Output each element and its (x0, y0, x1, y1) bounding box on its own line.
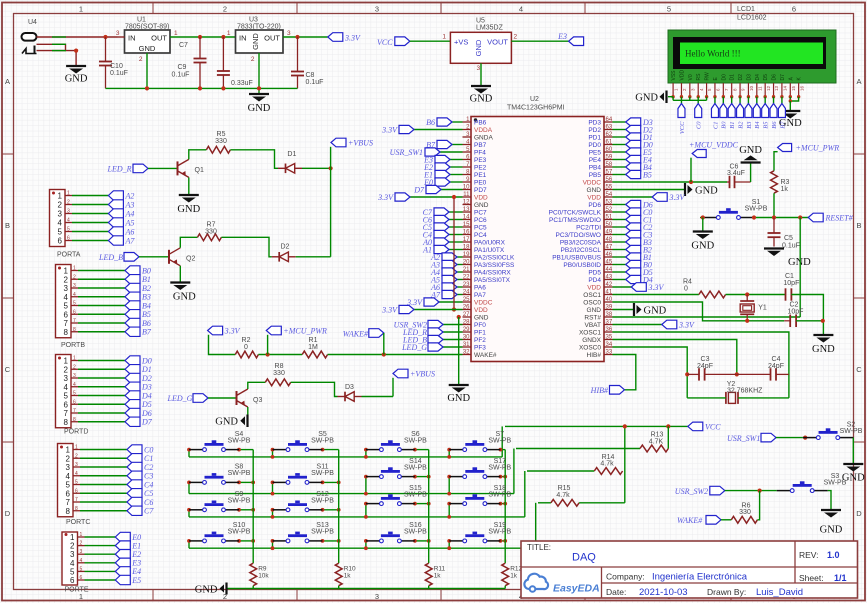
node +VBUS (331, 138, 373, 148)
pin 10 of LCD1 (D3) (746, 74, 754, 97)
wire keypad column vertical (252, 450, 254, 564)
svg-text:PC7: PC7 (474, 210, 487, 217)
capacitor C8 (291, 37, 323, 88)
junction (221, 35, 225, 39)
svg-text:PA1/U0TX: PA1/U0TX (474, 247, 505, 254)
svg-text:VDDC: VDDC (583, 180, 602, 187)
svg-text:22: 22 (463, 274, 470, 280)
wire LCD pin 2 (680, 97, 682, 104)
svg-text:U4: U4 (28, 19, 37, 26)
node B0 (720, 104, 728, 129)
svg-text:VSS: VSS (671, 70, 677, 81)
svg-text:GND: GND (635, 92, 658, 103)
svg-text:R11: R11 (434, 566, 446, 573)
connector U4 (DC jack) (22, 19, 38, 54)
svg-text:23: 23 (463, 282, 470, 288)
ground (470, 86, 493, 105)
node D7 (125, 417, 153, 427)
wire Q1 emitter (188, 177, 190, 195)
wire (338, 586, 340, 589)
wire switch right to column (500, 449, 505, 451)
svg-text:2021-10-03: 2021-10-03 (639, 587, 688, 598)
svg-text:VCC: VCC (377, 38, 393, 47)
svg-text:1: 1 (80, 532, 83, 538)
resistor R15 (551, 485, 579, 506)
switch S16 (366, 522, 427, 543)
svg-text:2: 2 (73, 274, 76, 280)
svg-text:D3: D3 (746, 74, 752, 81)
node 3.3V (328, 33, 361, 43)
junction (623, 424, 627, 428)
wire WAKE# stem (383, 333, 385, 355)
svg-text:27: 27 (463, 312, 470, 318)
wire switch left drop (272, 510, 274, 517)
junction (689, 180, 693, 184)
wire U2 XOSC1 (613, 332, 789, 398)
wire D2 to +VBUS (296, 256, 331, 258)
svg-text:C1: C1 (712, 122, 719, 130)
wire U1.GND to rail (146, 53, 148, 88)
svg-text:D5: D5 (763, 74, 769, 81)
wire keypad row 2 bus (189, 493, 514, 495)
node LED_G (401, 343, 443, 352)
svg-text:PE4: PE4 (589, 157, 602, 164)
svg-text:D: D (856, 509, 862, 518)
svg-text:GND: GND (644, 305, 667, 316)
node D0 (626, 140, 653, 149)
wire PORTA pin 5 (72, 231, 108, 233)
wire to GND (789, 101, 791, 111)
capacitor C10 (99, 37, 128, 88)
node C6 (127, 497, 153, 507)
svg-text:GND: GND (65, 74, 88, 85)
node A2 (108, 191, 134, 201)
svg-text:PD5: PD5 (588, 270, 601, 277)
wire to GND symbol (668, 96, 673, 98)
svg-text:B5: B5 (142, 310, 151, 319)
wire LCD pin 9 (739, 97, 741, 104)
svg-text:PE3: PE3 (474, 157, 487, 164)
wire U2 pin 29 (443, 331, 463, 333)
node C1 (127, 454, 153, 464)
svg-text:+MCU_VDDC: +MCU_VDDC (689, 141, 739, 150)
svg-text:PF4: PF4 (474, 150, 486, 157)
wire U2 pin 7 (450, 166, 463, 168)
svg-text:PD0: PD0 (588, 142, 601, 149)
svg-text:4: 4 (75, 471, 78, 477)
pin 9 of LCD1 (D2) (738, 74, 746, 97)
svg-text:0.1uF: 0.1uF (110, 70, 128, 77)
wire U2 pin 6 (450, 159, 463, 161)
svg-text:D0: D0 (721, 74, 727, 81)
svg-text:35: 35 (606, 334, 613, 340)
node B6 (770, 104, 778, 129)
svg-text:B0: B0 (142, 266, 151, 275)
svg-text:10pF: 10pF (788, 308, 804, 315)
wire PORTE pin 1 (85, 536, 116, 538)
svg-text:SW-PB: SW-PB (840, 428, 863, 435)
svg-text:32.768KHZ: 32.768KHZ (727, 387, 763, 394)
wire switch left drop (365, 541, 367, 548)
node C0 (695, 104, 703, 130)
node D3 (125, 382, 152, 392)
svg-text:D4: D4 (141, 391, 152, 400)
wire U3.OUT to 3.3V (283, 36, 328, 38)
svg-text:3: 3 (64, 284, 69, 293)
svg-text:4.7k: 4.7k (600, 460, 614, 467)
svg-text:USR_SW1: USR_SW1 (390, 148, 423, 157)
wire keypad row 3 bus (189, 516, 525, 518)
svg-text:1: 1 (442, 34, 446, 41)
junction (337, 539, 341, 543)
svg-text:TITLE:: TITLE: (527, 543, 551, 552)
svg-text:8: 8 (64, 418, 69, 427)
svg-text:24pF: 24pF (768, 363, 784, 370)
wire PORTC pin 6 (80, 492, 127, 494)
svg-text:PB5: PB5 (589, 172, 602, 179)
node E4 (626, 155, 652, 164)
resistor R2 (235, 337, 258, 358)
svg-text:PE0: PE0 (474, 180, 487, 187)
regulator U3 (227, 17, 291, 64)
svg-text:2: 2 (139, 56, 143, 63)
ground (685, 183, 718, 196)
ground (65, 66, 88, 85)
wire VCC to U5 (410, 40, 451, 42)
svg-text:C1: C1 (144, 454, 153, 463)
wire R1 to U2 WAKE# (328, 354, 463, 356)
wire switch left drop (272, 450, 274, 457)
wire U2 pin 30 (443, 339, 463, 341)
junction LCD pin 10 (747, 95, 750, 98)
junction (798, 215, 802, 219)
svg-text:5: 5 (66, 481, 71, 490)
capacitor C9 (172, 37, 253, 88)
svg-text:6: 6 (66, 489, 71, 498)
svg-text:OUT: OUT (151, 34, 167, 43)
svg-text:VDDA: VDDA (474, 127, 493, 134)
wire U5.VOUT to E3 (511, 40, 568, 42)
junction (413, 502, 417, 506)
junction (145, 86, 149, 90)
wire switch left drop (272, 541, 274, 548)
junction (321, 508, 325, 512)
svg-text:0.33uF: 0.33uF (231, 80, 253, 87)
svg-text:3: 3 (287, 30, 291, 37)
wire PORTB pin 7 (78, 322, 125, 324)
svg-text:3.3V: 3.3V (381, 305, 398, 314)
svg-text:+VS: +VS (454, 38, 468, 47)
wire WAKE# to R6 (721, 519, 731, 521)
wire switch left drop (448, 450, 450, 457)
junction (752, 215, 756, 219)
pin 2 of LCD1 (VDD) (679, 70, 687, 97)
svg-text:10pF: 10pF (783, 280, 799, 287)
svg-text:GND: GND (173, 292, 196, 303)
junction (701, 215, 705, 219)
wire +MCU_PWR stem (267, 335, 269, 355)
svg-text:4: 4 (67, 218, 70, 224)
svg-text:EasyEDA: EasyEDA (553, 583, 600, 595)
svg-text:B0: B0 (721, 121, 728, 129)
junction (745, 319, 749, 323)
wire switch left drop (188, 510, 190, 517)
wire Q3 emitter (246, 407, 249, 421)
wire PORTA pin 2 (72, 204, 108, 206)
svg-text:8: 8 (73, 417, 76, 423)
svg-text:330: 330 (205, 228, 217, 235)
wire keypad column vertical (338, 450, 340, 564)
svg-text:PE2: PE2 (474, 165, 487, 172)
svg-text:GND: GND (474, 39, 483, 56)
node LED_G (167, 394, 209, 403)
resistor R4 (683, 279, 726, 298)
svg-text:24: 24 (463, 289, 470, 295)
wire PORTB pin 3 (78, 287, 125, 289)
capacitor C5 (768, 218, 800, 250)
wire C2 to GND (796, 321, 823, 335)
svg-text:PC3/TDO/SWO: PC3/TDO/SWO (555, 232, 601, 239)
node C1 (711, 104, 719, 130)
junction (803, 436, 807, 440)
junction (266, 352, 270, 356)
wire row2 to R13 (516, 448, 640, 450)
node C0 (127, 445, 153, 455)
svg-text:330: 330 (215, 138, 227, 145)
switch S15 (366, 485, 427, 506)
ground (739, 145, 762, 163)
junction (427, 539, 431, 543)
junction (499, 502, 503, 506)
node C7 (423, 208, 449, 217)
svg-text:SW-PB: SW-PB (404, 491, 427, 498)
wire PORTD pin 8 (78, 421, 125, 423)
wire LCD pin 8 (731, 97, 733, 104)
junction (271, 455, 275, 459)
wire U2 pin 16 (449, 234, 463, 236)
node A7 (108, 236, 135, 246)
svg-text:SW-PB: SW-PB (745, 205, 768, 212)
junction (271, 481, 275, 485)
svg-text:PB7: PB7 (474, 142, 487, 149)
wire switch left drop (188, 450, 190, 457)
svg-text:1: 1 (64, 357, 69, 366)
switch S4 (189, 431, 251, 452)
svg-text:D3: D3 (345, 384, 354, 391)
node B4 (125, 301, 151, 311)
wire switch right to column (239, 509, 253, 511)
svg-text:D4: D4 (755, 74, 761, 81)
node LED_B (98, 253, 139, 263)
svg-text:B4: B4 (142, 301, 151, 310)
wire U2 GNDX (613, 340, 737, 375)
wire PORTD pin 2 (78, 368, 125, 370)
wire PORTD pin 6 (78, 403, 125, 405)
pin 12 of LCD1 (D5) (763, 74, 771, 97)
svg-text:DAQ: DAQ (572, 552, 596, 564)
wire U2 pin 9 (450, 181, 463, 183)
svg-text:5: 5 (58, 228, 63, 237)
svg-text:5: 5 (64, 392, 69, 401)
svg-text:A6: A6 (125, 227, 135, 236)
svg-text:6: 6 (73, 309, 76, 315)
junction LCD pin 15 (789, 95, 792, 98)
wire PORTC pin 3 (80, 466, 127, 468)
resistor R10 (335, 563, 356, 586)
junction (187, 481, 191, 485)
node A5 (430, 275, 457, 284)
node B7 (125, 327, 152, 337)
svg-text:3.3V: 3.3V (678, 321, 695, 330)
wire U2 pin 2 (414, 129, 463, 131)
svg-text:3: 3 (75, 462, 78, 468)
wire U2 pin 47 (613, 249, 626, 251)
wire U2 VDDC pin56 (613, 181, 728, 183)
svg-text:13: 13 (463, 207, 470, 213)
svg-text:R9: R9 (258, 566, 267, 573)
wire S2 to GND (852, 438, 854, 464)
node A4 (430, 268, 457, 277)
svg-text:C4: C4 (144, 480, 153, 489)
svg-text:5: 5 (73, 391, 76, 397)
node B7 (778, 104, 786, 129)
junction (735, 372, 739, 376)
wire PORTB pin 8 (78, 331, 125, 333)
wire U2 RST# pin38 (613, 316, 801, 318)
wire LCD pin 10 (747, 97, 749, 104)
ground (635, 91, 666, 104)
svg-text:3: 3 (477, 65, 481, 72)
wire C6 to GND (750, 163, 752, 183)
svg-text:REV:: REV: (799, 550, 819, 560)
svg-text:B5: B5 (763, 121, 770, 129)
node 3.3V (208, 326, 241, 336)
wire switch right to column (500, 540, 505, 542)
wire switch left drop (188, 482, 190, 493)
svg-text:38: 38 (606, 312, 613, 318)
node C3 (626, 230, 653, 239)
wire keypad riser (513, 449, 515, 494)
resistor R1 (302, 337, 327, 358)
svg-text:SW-PB: SW-PB (228, 529, 251, 536)
svg-text:8: 8 (64, 328, 69, 337)
svg-text:50: 50 (606, 222, 613, 228)
svg-text:39: 39 (606, 304, 613, 310)
wire U2 pin 52 (613, 211, 626, 213)
switch S18 (449, 485, 511, 506)
node +VBUS (393, 369, 435, 379)
node LED_R (402, 328, 443, 337)
svg-text:PORTB: PORTB (61, 342, 85, 349)
junction (447, 492, 451, 496)
svg-text:A: A (5, 77, 10, 86)
connector PORTC (58, 444, 91, 527)
svg-text:SW-PB: SW-PB (311, 437, 334, 444)
node USR_SW1 (390, 148, 440, 157)
wire PORTC pin 8 (80, 510, 127, 512)
svg-text:SW-PB: SW-PB (228, 498, 251, 505)
diode D1 (278, 151, 302, 173)
wire PORTD pin 7 (78, 412, 125, 414)
svg-text:R5: R5 (217, 131, 226, 138)
svg-text:B1: B1 (729, 122, 736, 129)
junction (499, 539, 503, 543)
wire U2 pin 20 (457, 264, 463, 266)
wire S1 left (700, 217, 703, 219)
ground (177, 195, 200, 215)
svg-text:48: 48 (606, 237, 613, 243)
wire U2 pin 64 (613, 121, 626, 123)
svg-text:3: 3 (73, 373, 76, 379)
svg-text:44: 44 (606, 267, 613, 273)
wire VCC net (505, 425, 688, 427)
node D1 (125, 365, 152, 375)
svg-text:1k: 1k (781, 186, 789, 193)
svg-text:1: 1 (66, 446, 71, 455)
node C3 (127, 471, 153, 481)
pin 3 of LCD1 (V0) (688, 74, 696, 97)
wire U2 pin 1 (452, 121, 463, 123)
pin 4 of LCD1 (RS) (696, 73, 704, 97)
svg-text:4: 4 (80, 558, 83, 564)
pin 15 of LCD1 (A) (788, 77, 796, 97)
wire U2 pin 4 (452, 144, 463, 146)
junction (364, 475, 368, 479)
wire switch left drop (188, 541, 190, 548)
wire PORTC pin 5 (80, 484, 127, 486)
wire switch left drop (365, 504, 367, 517)
wire U2 pin 59 (613, 159, 626, 161)
svg-text:D1: D1 (287, 151, 296, 158)
svg-text:SW-PB: SW-PB (311, 470, 334, 477)
node C4 (127, 480, 153, 490)
wire switch right to column (323, 509, 339, 511)
junction (758, 489, 762, 493)
svg-text:SW-PB: SW-PB (404, 529, 427, 536)
wire U2 XOSC0 (613, 347, 688, 398)
svg-text:+VBUS: +VBUS (410, 370, 435, 379)
svg-text:3: 3 (64, 374, 69, 383)
svg-text:4: 4 (73, 382, 76, 388)
node HIB# (590, 386, 625, 395)
node C5 (423, 223, 449, 232)
svg-text:4.7K: 4.7K (649, 439, 664, 446)
svg-text:E3: E3 (557, 32, 567, 41)
wire keypad riser (524, 471, 526, 517)
node D4 (626, 275, 653, 284)
svg-text:C0: C0 (696, 121, 703, 129)
wire U2 pin 5 (440, 151, 463, 153)
node A0 (422, 238, 449, 247)
wire U2 pin 61 (613, 144, 626, 146)
node E1 (423, 170, 450, 179)
svg-text:57: 57 (606, 169, 613, 175)
svg-text:37: 37 (606, 319, 613, 325)
node D2 (626, 125, 653, 134)
ground (170, 283, 196, 303)
junction LCD pin 11 (755, 95, 758, 98)
junction (364, 492, 368, 496)
svg-text:C6: C6 (144, 498, 153, 507)
junction LCD pin 16 (797, 95, 800, 98)
wire PORTE pin 2 (85, 545, 116, 547)
wire C1 to C2 net (791, 295, 823, 321)
capacitor C1 (783, 273, 799, 301)
node A3 (430, 260, 457, 269)
node RESET# (808, 213, 853, 223)
svg-text:RW: RW (705, 72, 711, 81)
junction (427, 475, 431, 479)
